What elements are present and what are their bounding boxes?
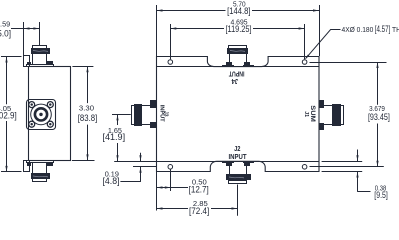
svg-text:[4.8]: [4.8] xyxy=(103,176,120,186)
svg-text:J3: J3 xyxy=(163,111,169,117)
svg-text:[102.9]: [102.9] xyxy=(0,110,17,120)
svg-text:SUM: SUM xyxy=(309,105,316,122)
svg-text:J4: J4 xyxy=(232,77,239,86)
svg-text:3.30: 3.30 xyxy=(79,104,94,113)
svg-text:[144.8]: [144.8] xyxy=(227,6,250,16)
svg-text:[15.0]: [15.0] xyxy=(0,28,11,38)
svg-text:[119.25]: [119.25] xyxy=(226,24,252,34)
svg-text:[12.7]: [12.7] xyxy=(189,184,209,194)
svg-text:[72.4]: [72.4] xyxy=(189,206,209,216)
svg-text:[9.5]: [9.5] xyxy=(374,190,388,200)
svg-text:[41.9]: [41.9] xyxy=(102,132,125,142)
svg-text:4XØ 0.180: 4XØ 0.180 xyxy=(342,25,374,34)
svg-text:THRU: THRU xyxy=(392,25,399,34)
svg-text:[4.57]: [4.57] xyxy=(375,24,391,34)
svg-text:J1: J1 xyxy=(303,111,309,118)
svg-text:[93.45]: [93.45] xyxy=(368,112,390,122)
svg-text:[83.8]: [83.8] xyxy=(78,113,98,123)
svg-text:INPUT: INPUT xyxy=(228,152,247,161)
svg-text:0.59: 0.59 xyxy=(0,19,10,28)
